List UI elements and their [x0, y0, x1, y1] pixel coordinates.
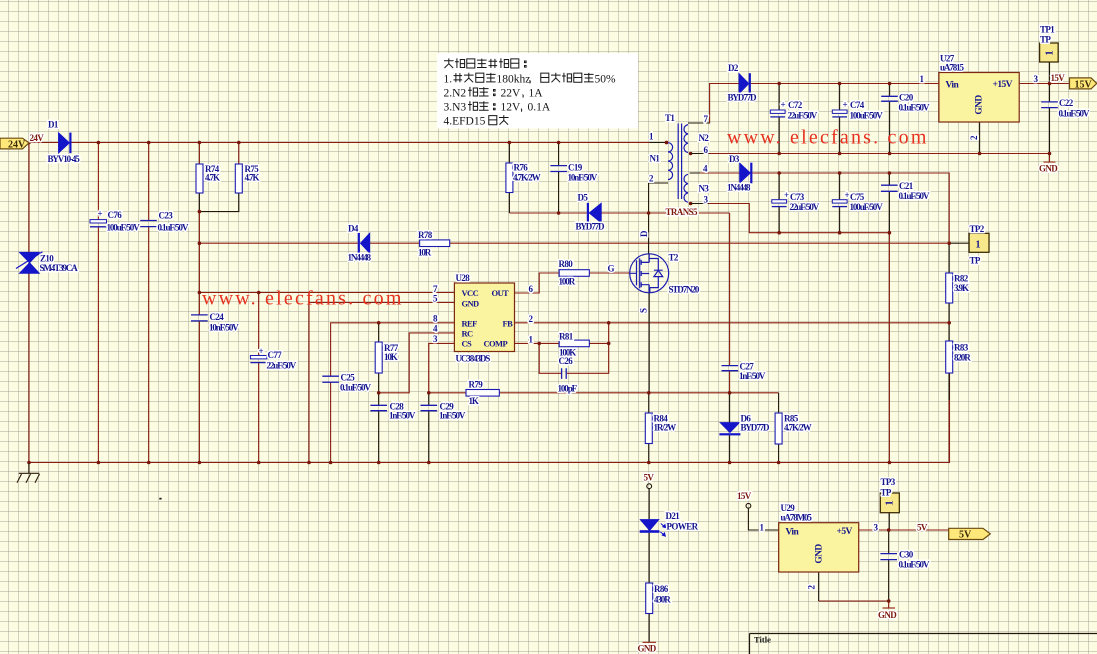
TVS Z10: [20, 252, 40, 262]
svg-text:GND: GND: [815, 544, 825, 564]
svg-text:1: 1: [920, 74, 925, 84]
svg-text:6: 6: [704, 145, 709, 155]
svg-text:10K: 10K: [384, 352, 398, 362]
svg-text:+: +: [259, 346, 264, 356]
svg-text:C19: C19: [568, 163, 583, 173]
svg-text:D1: D1: [48, 120, 59, 130]
svg-text:430R: 430R: [654, 595, 671, 605]
svg-text:1: 1: [976, 240, 981, 251]
diode D2: [739, 74, 749, 94]
wire pin7 to D2: [688, 84, 739, 124]
transformer secondary N3: [684, 174, 688, 202]
svg-text:1K: 1K: [469, 396, 479, 406]
transformer core: [678, 124, 681, 200]
svg-text:820R: 820R: [954, 353, 971, 363]
wire TP1 drop / C22 column: [1049, 62, 1051, 154]
svg-text:U29: U29: [781, 503, 796, 513]
svg-text:BYD77D: BYD77D: [576, 222, 606, 232]
svg-text:5: 5: [433, 294, 438, 304]
svg-text:uA7815: uA7815: [940, 63, 965, 73]
diode D6 (points down): [720, 423, 739, 433]
wire C21 column: [888, 173, 890, 233]
svg-text:5V: 5V: [959, 530, 972, 541]
resistor R74: [196, 164, 203, 193]
capacitor C77 (polar): [250, 356, 267, 359]
wire C26 loop: [539, 323, 609, 374]
svg-text:uA78M05: uA78M05: [781, 513, 813, 523]
wire Z10 column: [28, 143, 30, 463]
svg-text:100uF/50V: 100uF/50V: [850, 202, 884, 212]
diode D3: [740, 163, 751, 183]
capacitor C26 (vertical plates): [562, 368, 567, 379]
stray ink dash: [159, 498, 161, 500]
IC boxes: [454, 73, 1019, 573]
svg-text:100uF/50V: 100uF/50V: [107, 223, 141, 233]
svg-text:R80: R80: [559, 259, 574, 269]
diode D1: [59, 133, 70, 153]
capacitor C19: [550, 166, 567, 172]
svg-text:7: 7: [433, 284, 438, 294]
capacitor C72 (polar): [770, 110, 785, 113]
terminal circle 5V (LED chain): [647, 484, 652, 489]
svg-text:R81: R81: [559, 332, 574, 342]
wire VCC line to U28: [199, 292, 454, 294]
capacitor C28: [370, 405, 387, 410]
svg-text:24V: 24V: [8, 140, 26, 151]
resistor R86: [646, 583, 653, 614]
wire U29 pin1: [748, 508, 778, 530]
node dots misc: [198, 210, 202, 214]
diodes: [16, 73, 752, 536]
svg-text:+5V: +5V: [837, 527, 853, 537]
svg-text:2: 2: [649, 174, 654, 184]
svg-text:N1: N1: [650, 154, 661, 164]
wire C77 branch: [258, 293, 260, 463]
svg-text:100pF: 100pF: [558, 384, 578, 394]
svg-text:1nF/50V: 1nF/50V: [389, 411, 416, 421]
wire U27 pin3 to port: [1019, 83, 1069, 85]
svg-text:7: 7: [704, 114, 709, 124]
svg-text:+: +: [98, 209, 103, 219]
spec box (white): [437, 53, 638, 129]
svg-text:Vin: Vin: [786, 528, 800, 538]
svg-text:COMP: COMP: [484, 339, 508, 349]
wire C29 branch: [428, 393, 430, 463]
svg-text:10nF/50V: 10nF/50V: [568, 173, 598, 183]
node dots 24V rail: [27, 141, 31, 145]
svg-text:www. elecfans. com: www. elecfans. com: [727, 127, 929, 149]
svg-text:0.1uF/50V: 0.1uF/50V: [1059, 109, 1090, 119]
capacitor C24: [191, 315, 208, 321]
svg-text:N2: N2: [699, 133, 710, 143]
port 15V: [1070, 78, 1097, 89]
svg-text:2.N2: 2.N2: [444, 88, 467, 100]
svg-text:C74: C74: [850, 100, 865, 110]
svg-text:3.N3: 3.N3: [444, 102, 467, 114]
wire D5 snubber line: [508, 193, 510, 214]
wire OUT to R80: [515, 273, 631, 293]
svg-text:TP3: TP3: [881, 477, 896, 487]
capacitor C27: [722, 366, 739, 371]
svg-text:C76: C76: [108, 210, 123, 220]
svg-text:4.7K/2W: 4.7K/2W: [513, 173, 541, 183]
svg-text:0.1uF/50V: 0.1uF/50V: [899, 560, 930, 570]
wire R74 column / VCC chain: [198, 143, 200, 463]
wire C19 top: [558, 143, 560, 166]
svg-text:+: +: [843, 100, 848, 110]
svg-text:Vin: Vin: [946, 81, 960, 91]
resistors (blue outline boxes): [196, 163, 953, 614]
svg-text:BYD77D: BYD77D: [728, 93, 758, 103]
svg-text:0.1uF/50V: 0.1uF/50V: [899, 191, 930, 201]
port 5V: [949, 528, 991, 539]
svg-text:2: 2: [807, 585, 817, 590]
svg-text:SM4T39CA: SM4T39CA: [40, 263, 79, 273]
resistor R85: [775, 413, 782, 444]
svg-text:D21: D21: [666, 511, 681, 521]
svg-text:2: 2: [529, 314, 534, 324]
svg-text:5V: 5V: [917, 523, 928, 533]
svg-text:C26: C26: [559, 356, 574, 366]
wire LED chain: [648, 489, 650, 520]
wire TP3 stub: [888, 513, 890, 530]
svg-text:G: G: [608, 264, 615, 274]
svg-text:T1: T1: [665, 113, 675, 123]
wire transformer pin2 stub: [649, 182, 668, 184]
svg-text:3: 3: [704, 195, 709, 205]
svg-text:1A: 1A: [529, 88, 544, 100]
transformer T1: [668, 124, 688, 203]
ground bar under C30: [883, 607, 896, 609]
svg-text:12V: 12V: [501, 102, 522, 114]
svg-text:4.7K: 4.7K: [245, 173, 260, 183]
wire pin3 net: [691, 203, 710, 205]
svg-text:22V: 22V: [501, 88, 522, 100]
svg-text:REF: REF: [462, 319, 478, 329]
svg-text:3: 3: [874, 523, 879, 533]
svg-text:www. elecfans. com: www. elecfans. com: [202, 288, 404, 310]
ground bar under R86: [643, 641, 657, 643]
capacitor C73 (polar): [772, 200, 787, 203]
resistor R78: [420, 240, 450, 247]
svg-text:6: 6: [529, 284, 534, 294]
test point boxes: [880, 43, 1058, 513]
svg-text:GND: GND: [462, 299, 480, 309]
svg-text:C77: C77: [268, 350, 283, 360]
svg-text:0.1uF/50V: 0.1uF/50V: [899, 103, 930, 113]
svg-text:100R: 100R: [559, 277, 576, 287]
svg-text:C72: C72: [788, 100, 803, 110]
svg-text:T2: T2: [669, 253, 679, 263]
svg-text:OUT: OUT: [492, 288, 510, 298]
svg-text:10R: 10R: [418, 248, 432, 258]
svg-text:0.1uF/50V: 0.1uF/50V: [340, 383, 371, 393]
svg-text:1.: 1.: [444, 73, 453, 85]
svg-text:POWER: POWER: [667, 522, 699, 532]
svg-text:0.1A: 0.1A: [528, 102, 551, 114]
wire 15V rail: [751, 83, 939, 85]
capacitor C23: [140, 221, 157, 227]
svg-text:D2: D2: [728, 63, 739, 73]
svg-text:D3: D3: [729, 154, 740, 164]
svg-text:TP: TP: [970, 256, 981, 266]
wire 24V rail: [29, 142, 667, 144]
regulator U27 box: [939, 73, 1019, 123]
wire pin4 to D3: [690, 172, 740, 174]
wire 12V rail: [752, 173, 949, 243]
svg-text:1N4448: 1N4448: [348, 253, 372, 263]
terminal circle 15V (U29 input): [746, 503, 751, 508]
svg-text:+15V: +15V: [993, 80, 1013, 90]
wire R85 branch: [730, 392, 779, 394]
wire R82 R83 column: [948, 243, 950, 400]
svg-text:R86: R86: [654, 584, 669, 594]
svg-text:FB: FB: [503, 319, 514, 329]
svg-text:R82: R82: [954, 274, 969, 284]
svg-text:D5: D5: [578, 193, 589, 203]
svg-text:5V: 5V: [644, 473, 655, 483]
svg-text:3: 3: [1034, 74, 1039, 84]
svg-text:R79: R79: [469, 380, 484, 390]
wire drain column: [648, 183, 650, 254]
svg-text:1nF/50V: 1nF/50V: [739, 371, 766, 381]
wire D6 column: [729, 213, 731, 393]
resistor R81: [559, 340, 589, 347]
wire U29 pin2: [818, 572, 820, 601]
svg-text:C73: C73: [790, 192, 805, 202]
wire C76 column: [97, 143, 99, 463]
wire source column: [648, 293, 650, 393]
wire C23 column: [148, 143, 150, 463]
title block: [750, 634, 1097, 654]
svg-text:TRANS5: TRANS5: [666, 207, 699, 217]
svg-text:CS: CS: [462, 339, 473, 349]
regulator U29 box: [779, 523, 859, 572]
svg-text:1: 1: [760, 523, 765, 533]
svg-text:TP: TP: [1040, 35, 1051, 45]
svg-text:4.7K: 4.7K: [205, 173, 220, 183]
op-amp U28 UC3843 box: [454, 283, 514, 352]
svg-text:3.9K: 3.9K: [954, 283, 969, 293]
power ports: [0, 78, 1097, 540]
svg-text:4: 4: [433, 324, 438, 334]
wire U29 pin3 to port: [859, 529, 949, 531]
wire C28 branch: [378, 393, 380, 463]
svg-text:C20: C20: [899, 93, 914, 103]
svg-text:D4: D4: [348, 224, 359, 234]
test point TP2 box: [969, 233, 989, 252]
svg-text:2: 2: [969, 135, 979, 140]
node dots ground bus: [27, 461, 31, 465]
capacitor C25: [322, 376, 339, 382]
wire U27 pin2: [979, 122, 981, 154]
capacitors (blue): [90, 96, 1058, 559]
svg-text:S: S: [639, 308, 649, 313]
svg-text:15V: 15V: [1075, 80, 1093, 91]
svg-text:TP: TP: [881, 488, 892, 498]
wire GND rail y153: [691, 153, 1050, 155]
svg-text:24V: 24V: [30, 133, 45, 143]
wire C74 column: [839, 84, 841, 154]
svg-text:C24: C24: [210, 312, 225, 322]
transformer primary N1: [668, 143, 673, 180]
resistor R84: [645, 413, 652, 444]
resistor R79: [466, 390, 499, 397]
capacitor C21: [881, 185, 898, 191]
LED D21 (points down): [640, 520, 658, 531]
svg-text:4: 4: [703, 164, 708, 174]
svg-text:1R/2W: 1R/2W: [654, 423, 677, 433]
svg-text:1: 1: [1045, 51, 1056, 56]
capacitor C29: [421, 405, 438, 410]
svg-text:GND: GND: [878, 610, 897, 620]
svg-text:TP2: TP2: [970, 224, 985, 234]
test point TP1 box: [1040, 43, 1059, 62]
svg-text:GND: GND: [638, 644, 657, 654]
wire COMP / R81: [515, 342, 609, 344]
svg-text:50%: 50%: [595, 73, 617, 85]
diode D5 (points left): [589, 203, 601, 222]
wire REF line + C25 branch: [331, 323, 455, 463]
wire RC jog: [379, 333, 455, 393]
svg-text:C22: C22: [1059, 98, 1074, 108]
svg-text:Z10: Z10: [40, 254, 54, 264]
resistor R83: [946, 341, 953, 373]
svg-text:1N4448: 1N4448: [727, 183, 751, 193]
svg-text:+: +: [781, 100, 786, 110]
svg-text:1: 1: [649, 132, 654, 142]
svg-text:GND: GND: [975, 95, 985, 115]
resistor R75: [235, 164, 242, 193]
svg-text:VCC: VCC: [462, 288, 479, 298]
svg-text:R83: R83: [954, 343, 969, 353]
capacitor C20: [881, 96, 898, 101]
svg-text:STD7N20: STD7N20: [669, 285, 700, 295]
svg-text:C75: C75: [850, 192, 865, 202]
svg-text:3: 3: [433, 334, 438, 344]
MOSFET T2: [630, 254, 669, 293]
resistor R80: [559, 270, 589, 277]
svg-text:BYV10-45: BYV10-45: [48, 154, 81, 164]
svg-text:U28: U28: [456, 273, 471, 283]
svg-text:R78: R78: [418, 230, 433, 240]
svg-text:0.1uF/50V: 0.1uF/50V: [158, 223, 189, 233]
svg-text:100uF/50V: 100uF/50V: [850, 111, 884, 121]
diode D4 (points left): [361, 233, 370, 253]
svg-text:UC3843DS: UC3843DS: [456, 354, 491, 364]
wire C30 column: [888, 530, 890, 601]
svg-text:1: 1: [529, 335, 534, 345]
earth ground symbol: [17, 463, 40, 483]
LED D21 arrows: [661, 524, 666, 528]
wire CS sense line: [429, 392, 730, 394]
wire C73 column: [778, 173, 780, 233]
svg-text:4.EFD15: 4.EFD15: [444, 116, 486, 128]
capacitor C30: [880, 554, 897, 560]
ground bar under C22: [1044, 161, 1056, 163]
wire GND pin5 line: [309, 303, 454, 463]
svg-text:22uF/50V: 22uF/50V: [790, 202, 820, 212]
svg-text:1: 1: [885, 501, 896, 506]
svg-text:RC: RC: [462, 329, 474, 339]
resistor R77: [375, 342, 382, 373]
wire C20 column: [889, 84, 891, 154]
svg-text:GND: GND: [1039, 164, 1058, 174]
svg-text:+: +: [845, 190, 850, 200]
transformer pin stubs: [688, 123, 710, 204]
transformer secondary N2: [684, 125, 688, 153]
capacitor C75 (polar): [832, 200, 847, 203]
resistor R82: [946, 273, 953, 303]
svg-text:C30: C30: [899, 550, 914, 560]
svg-text:1nF/50V: 1nF/50V: [439, 411, 466, 421]
capacitor C22: [1041, 102, 1058, 108]
resistor R76: [506, 163, 513, 193]
wire CS pin drop: [429, 343, 455, 392]
svg-text:Title: Title: [754, 635, 771, 645]
wire ground bus: [29, 373, 950, 463]
svg-text:22uF/50V: 22uF/50V: [267, 361, 297, 371]
wire C72 column: [778, 84, 780, 154]
wire C19 bottom: [558, 172, 560, 213]
wire transformer pin1 stub: [650, 142, 668, 144]
svg-text:15V: 15V: [1051, 73, 1066, 83]
wire R84 branch: [648, 393, 650, 463]
svg-text:180khz: 180khz: [497, 73, 531, 85]
capacitor C76 (polar): [90, 220, 107, 223]
wire TP2 stub: [949, 242, 969, 244]
port 24V: [0, 138, 29, 149]
svg-text:C25: C25: [341, 373, 356, 383]
wire R75 column: [238, 143, 240, 165]
svg-text:BYD77D: BYD77D: [741, 423, 771, 433]
svg-text:22uF/50V: 22uF/50V: [788, 111, 818, 121]
spec box text: [444, 58, 594, 124]
svg-text:R76: R76: [514, 163, 529, 173]
wire R77 branch: [378, 323, 380, 393]
svg-text:10nF/50V: 10nF/50V: [209, 323, 239, 333]
svg-text:C27: C27: [740, 362, 755, 372]
svg-text:15V: 15V: [737, 491, 752, 501]
svg-text:C21: C21: [899, 181, 914, 191]
capacitor C74 (polar): [832, 110, 847, 113]
svg-text:4.7K/2W: 4.7K/2W: [784, 423, 812, 433]
svg-text:C23: C23: [159, 211, 174, 221]
wire C75 column: [839, 173, 841, 233]
svg-text:+: +: [784, 190, 789, 200]
svg-text:8: 8: [433, 314, 438, 324]
test point TP3 box: [880, 493, 899, 513]
svg-text:D: D: [639, 230, 649, 237]
svg-text:N3: N3: [699, 184, 710, 194]
wire TP2/D4 long line: [199, 242, 949, 244]
wire R76 top: [508, 143, 510, 164]
wire FB line: [515, 322, 950, 324]
svg-text:TP1: TP1: [1040, 25, 1055, 35]
